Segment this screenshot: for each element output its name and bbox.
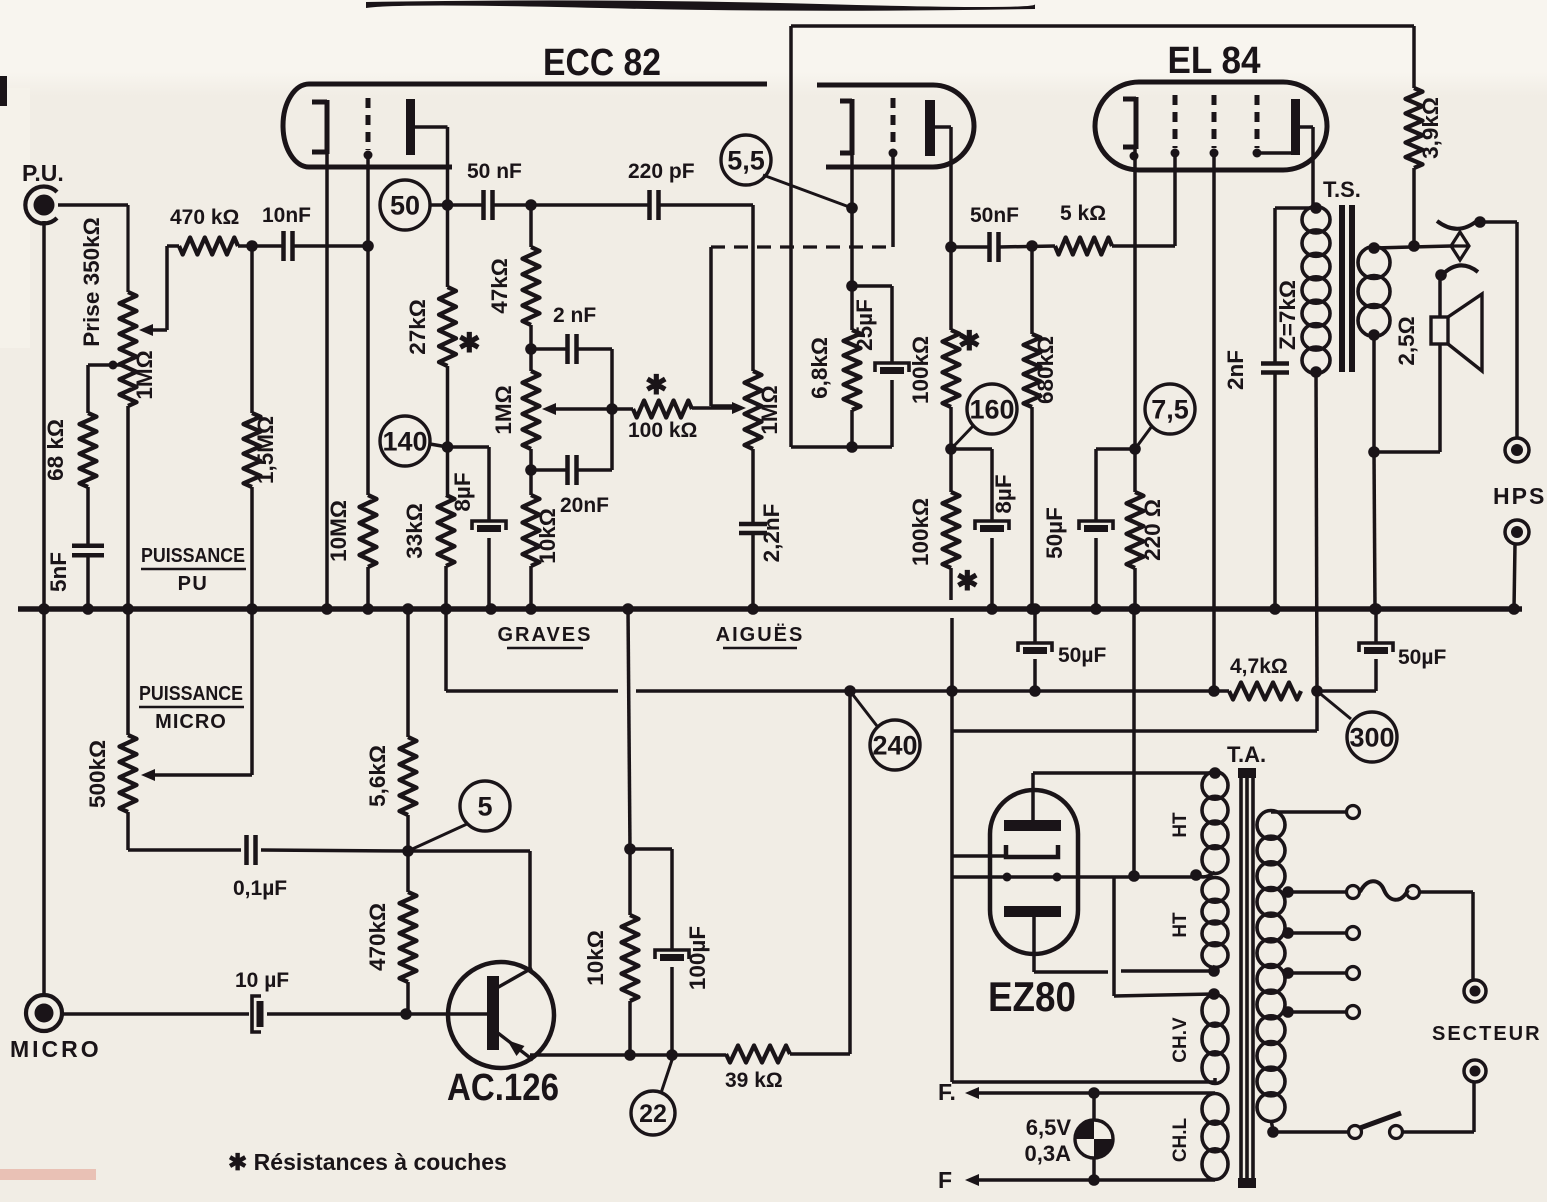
node dot bus at 8µF — [485, 603, 497, 615]
resistor 100kΩ tone — [612, 401, 735, 418]
label 100 kΩ — [628, 419, 697, 442]
ground bus wire — [18, 606, 1522, 612]
svg-text:100µF: 100µF — [685, 926, 710, 990]
svg-text:CH.V: CH.V — [1170, 1017, 1191, 1063]
grid1 EL84 — [1171, 95, 1180, 158]
svg-text:F: F — [938, 1167, 952, 1193]
wire 0,1µF to node 5 — [261, 850, 408, 851]
wire secondary bottom to bus — [1374, 335, 1375, 609]
wire feedback to cathode2 — [791, 26, 892, 447]
HPS terminal upper — [1505, 438, 1529, 462]
resistor 6,8kΩ — [844, 286, 861, 447]
capacitor 50nF — [484, 190, 493, 220]
node dot 2nF junction — [525, 343, 537, 355]
wire anode2 to 50nF node — [935, 127, 951, 330]
test point circle 5,5 — [721, 135, 852, 208]
node dot anode2 node — [945, 241, 957, 253]
label 50 nF — [467, 160, 522, 183]
label 5,6kΩ — [365, 745, 390, 807]
label 100µF — [685, 926, 710, 990]
label F upper — [938, 1079, 956, 1105]
label 50nF second — [970, 204, 1019, 227]
wire 2nF to tap node — [577, 349, 612, 470]
capacitor 8µF second — [975, 521, 1009, 530]
svg-text:22: 22 — [639, 1100, 667, 1128]
label 68kΩ — [43, 419, 68, 481]
label HT lower — [1170, 912, 1191, 938]
resistor 47kΩ — [523, 247, 540, 325]
svg-text:8µF: 8µF — [450, 472, 475, 511]
svg-text:MICRO: MICRO — [10, 1036, 102, 1062]
svg-text:100kΩ: 100kΩ — [908, 498, 933, 566]
potentiometer 1M (PUISSANCE PU) — [120, 292, 137, 406]
wire graves pot to 10k — [529, 449, 533, 495]
svg-text:EL 84: EL 84 — [1168, 40, 1261, 82]
tube ECC82 envelope (triode 2) — [817, 85, 974, 167]
svg-text:100kΩ: 100kΩ — [908, 336, 933, 404]
label 680kΩ — [1033, 336, 1058, 404]
wire 5,6k to node5 — [406, 815, 410, 851]
svg-text:68 kΩ: 68 kΩ — [43, 419, 68, 481]
node dot bus at 33k — [440, 603, 452, 615]
HPS terminal lower — [1505, 520, 1529, 544]
transformer TA CHL winding — [1202, 1094, 1228, 1180]
node dot emitter at 10k — [624, 1049, 636, 1061]
wire 8µF second to bus — [990, 538, 994, 609]
svg-text:1,5MΩ: 1,5MΩ — [253, 416, 278, 484]
node dot bus at P.U. — [38, 603, 50, 615]
cathode ECC82b — [840, 99, 852, 155]
anode ECC82b — [925, 100, 935, 156]
svg-text:100 kΩ: 100 kΩ — [628, 419, 697, 442]
wire 47k top — [529, 205, 533, 247]
wire 100µF branch — [630, 849, 672, 950]
capacitor 100µF — [655, 950, 689, 959]
node dot bus at 1,5M — [246, 603, 258, 615]
capacitor 50nF second — [990, 232, 999, 262]
svg-text:5: 5 — [477, 792, 492, 822]
label 8µF — [450, 472, 475, 511]
svg-text:50µF: 50µF — [1398, 646, 1446, 669]
wire cathode2 down — [850, 155, 854, 286]
wire TS top to 2nF — [1275, 206, 1316, 210]
resistor 1,5MΩ — [244, 246, 261, 609]
node dot bus at secondary — [1369, 603, 1381, 615]
capacitor 10nF — [284, 231, 293, 261]
svg-text:T.A.: T.A. — [1227, 742, 1266, 767]
node dot TS primary top — [1310, 202, 1322, 214]
label 50µF filter 240 — [1058, 644, 1106, 667]
svg-text:2nF: 2nF — [1223, 350, 1248, 390]
svg-text:CH.L: CH.L — [1170, 1117, 1191, 1162]
node dot 20nF junction — [525, 464, 537, 476]
resistor 10MΩ — [360, 495, 377, 567]
wire 160 node to 8µF — [951, 449, 992, 521]
svg-text:SECTEUR: SECTEUR — [1432, 1023, 1542, 1045]
red smudge bottom left — [0, 1169, 96, 1180]
capacitor 2,2nF — [739, 524, 767, 533]
label SECTEUR — [1432, 1023, 1542, 1045]
wire cathode1 to bus — [325, 154, 329, 609]
tube EL84 envelope — [1095, 82, 1327, 170]
svg-text:7,5: 7,5 — [1151, 395, 1189, 425]
label 5nF — [46, 552, 71, 592]
svg-text:ECC 82: ECC 82 — [543, 42, 661, 84]
label PUISSANCE MICRO — [139, 683, 244, 733]
test point circle 240 — [850, 691, 920, 770]
svg-text:✱ Résistances à couches: ✱ Résistances à couches — [228, 1149, 507, 1175]
node dot 47k top — [525, 199, 537, 211]
label 100kΩ lower — [908, 498, 933, 566]
wire emitter with arrow — [494, 1030, 533, 1060]
svg-text:5,6kΩ: 5,6kΩ — [365, 745, 390, 807]
label 0,1µF — [233, 877, 287, 900]
svg-text:10kΩ: 10kΩ — [535, 508, 560, 564]
resistor 4,7kΩ — [1229, 683, 1301, 700]
label 2nF EL84 — [1223, 350, 1248, 390]
wire 3,9k to jack node — [1412, 168, 1416, 246]
label F lower — [938, 1167, 952, 1193]
test point circle 140 — [380, 416, 448, 466]
node dot 7,5 node — [1129, 443, 1141, 455]
node dot emitter at 100µF — [666, 1049, 678, 1061]
anode ECC82a — [406, 99, 415, 155]
svg-text:0,3A: 0,3A — [1025, 1141, 1072, 1166]
label 100kΩ upper — [908, 336, 933, 404]
wire anode2 to 50nF2 — [951, 245, 989, 249]
wire 8µF to bus — [487, 538, 491, 609]
svg-text:140: 140 — [382, 427, 427, 457]
resistor 680kΩ — [1024, 246, 1041, 609]
svg-text:5nF: 5nF — [46, 552, 71, 592]
wire switch to secteur — [1403, 1083, 1474, 1132]
240V rail — [636, 689, 1229, 693]
wire 27k to 140 node — [446, 366, 450, 495]
wire F heater lower — [965, 1174, 1215, 1186]
capacitor 25µF — [875, 363, 909, 372]
label MICRO — [10, 1036, 102, 1062]
capacitor 5nF — [72, 546, 104, 556]
resistor 470kΩ — [179, 238, 238, 255]
resistor 5,6kΩ — [400, 737, 417, 815]
node dot bus at 5,6k — [402, 603, 414, 615]
label 2,2nF — [759, 504, 784, 563]
label 3,9kΩ — [1418, 97, 1443, 159]
label 6,8kΩ — [807, 337, 832, 399]
transformer TS secondary winding — [1358, 247, 1390, 337]
label 1MΩ aigues — [757, 385, 782, 434]
fuse — [1360, 881, 1420, 900]
svg-text:PUISSANCE: PUISSANCE — [141, 545, 245, 567]
black streak scan artifact top edge — [366, 0, 1035, 10]
asterisk 100k tone — [645, 370, 668, 400]
svg-text:AIGUËS: AIGUËS — [716, 623, 805, 646]
wire emitter line — [530, 1053, 726, 1057]
wire 50nF2 to 680k node — [999, 246, 1055, 247]
wire 470k to 10nF junction — [238, 244, 283, 248]
potentiometer 1MΩ GRAVES — [523, 371, 540, 449]
label EZ80 — [988, 973, 1076, 1020]
wire aigues wiper arrow — [732, 402, 746, 414]
wire node50 to 50nF — [448, 203, 484, 207]
wire CHV bottom — [952, 1078, 1215, 1082]
node dot 680k top — [1026, 240, 1038, 252]
wire speaker bottom — [1373, 344, 1440, 452]
asterisk 100k lower — [956, 566, 979, 596]
label 470 kΩ — [170, 206, 239, 229]
test point circle 300 — [1317, 691, 1397, 762]
wire prise tap — [88, 361, 124, 414]
svg-text:160: 160 — [969, 395, 1014, 425]
jack break contact lower arc — [1435, 265, 1478, 280]
wire mains tap 3 — [1282, 967, 1359, 980]
wire graves wiper — [542, 403, 612, 415]
anode1 EZ80 — [1004, 820, 1061, 831]
node dot rail at 50µF — [1029, 685, 1041, 697]
svg-text:F.: F. — [938, 1079, 956, 1105]
tube EZ80 envelope — [990, 790, 1078, 954]
node dot 300 node — [1311, 685, 1323, 697]
capacitor 10µF — [252, 996, 261, 1032]
label 20nF — [560, 494, 609, 517]
svg-text:✱: ✱ — [956, 566, 979, 596]
transformer TA HT2 winding — [1202, 878, 1228, 977]
wire 470k feed with wiper arrow — [139, 246, 179, 336]
label T.S. — [1323, 177, 1361, 202]
wire aigues pot to 2,2nF — [751, 449, 755, 524]
node dot rail at 4,7k — [1208, 685, 1220, 697]
wire base — [406, 1012, 488, 1016]
label 10nF — [262, 204, 311, 227]
node dot bus at 2,2nF — [747, 603, 759, 615]
wire micro jack to 10µF — [60, 1012, 249, 1016]
node dot bus at stub — [440, 603, 452, 615]
wire 5nF to bus — [86, 555, 90, 609]
svg-text:50µF: 50µF — [1042, 507, 1067, 559]
label 25µF — [852, 299, 877, 351]
black mark left edge — [0, 76, 7, 106]
node dot bus at 680k — [1026, 603, 1038, 615]
label EL 84 — [1168, 40, 1261, 82]
wire mains top tap — [1271, 806, 1360, 819]
node dot bus at pot — [122, 603, 134, 615]
node dot anode1 node — [442, 199, 454, 211]
jack plug tip diamond — [1451, 232, 1469, 260]
svg-text:HT: HT — [1170, 912, 1191, 938]
lighter top band of scan — [0, 0, 1547, 348]
label 4,7kΩ — [1230, 655, 1288, 678]
asterisk 27k — [458, 328, 481, 358]
svg-text:GRAVES: GRAVES — [498, 624, 593, 646]
label 2,5Ω — [1394, 316, 1419, 365]
label HPS — [1493, 483, 1546, 509]
asterisk 100k upper — [958, 326, 981, 356]
resistor 100kΩ upper — [943, 330, 960, 407]
node dot bus at 220 — [1129, 603, 1141, 615]
svg-text:25µF: 25µF — [852, 299, 877, 351]
svg-text:1MΩ: 1MΩ — [132, 350, 157, 399]
svg-text:50 nF: 50 nF — [467, 160, 522, 183]
svg-text:HPS: HPS — [1493, 483, 1546, 509]
svg-text:AC.126: AC.126 — [447, 1067, 559, 1109]
wire grid2 down to 4,7k — [1212, 153, 1216, 691]
svg-text:50: 50 — [390, 191, 420, 221]
node dot bus at riser — [622, 603, 634, 615]
test point circle 160 — [951, 384, 1017, 449]
wire 50µF cathode to bus — [1094, 538, 1098, 609]
svg-text:✱: ✱ — [958, 326, 981, 356]
node dot bus at 2nF EL84 — [1269, 603, 1281, 615]
label 2 nF — [553, 304, 596, 327]
svg-text:2,5Ω: 2,5Ω — [1394, 316, 1419, 365]
node dot bus at centre tap — [1128, 603, 1140, 615]
node dot 470k/1,5M junction — [246, 240, 258, 252]
svg-text:39 kΩ: 39 kΩ — [725, 1069, 783, 1092]
svg-text:PUISSANCE: PUISSANCE — [139, 683, 243, 705]
svg-text:5,5: 5,5 — [727, 146, 765, 176]
svg-text:6,5V: 6,5V — [1026, 1115, 1072, 1140]
capacitor 220pF — [650, 190, 659, 220]
node dot grid1 junction — [362, 240, 374, 252]
node dot 5,5 junction — [846, 202, 858, 214]
node dot base node — [400, 1008, 412, 1020]
wire 20nF branch — [531, 468, 567, 472]
wire 25µF branch — [852, 286, 892, 363]
node dot bus at 68k chain — [82, 603, 94, 615]
node dot rail at 39k riser — [844, 685, 856, 697]
transformer TS primary winding — [1302, 207, 1330, 374]
svg-text:470kΩ: 470kΩ — [365, 903, 390, 971]
wire P.U. jack to volume pot — [58, 205, 128, 292]
grid3 EL84 — [1253, 95, 1262, 158]
P.U. jack — [25, 187, 57, 224]
wire mains tap 2 — [1282, 927, 1359, 940]
node dot EL84 envelope — [1130, 152, 1139, 161]
label resistances a couches — [228, 1149, 507, 1175]
wire ground stub left — [446, 609, 618, 691]
wire mains bottom — [1267, 1120, 1361, 1139]
node dot 6,8k top — [846, 280, 858, 292]
wire 68k to 5nF — [86, 487, 90, 546]
transformer TA HT1 winding — [1196, 767, 1228, 877]
wire fuse to secteur — [1420, 892, 1473, 979]
wire B+ link 300 to EZ80 — [952, 691, 1317, 1082]
label GRAVES — [498, 624, 593, 648]
mains switch lever — [1360, 1113, 1403, 1139]
transformer TA core — [1238, 768, 1256, 1188]
label 220 Ω — [1140, 499, 1165, 561]
MICRO jack — [26, 995, 62, 1031]
feedback rail top — [791, 24, 1414, 28]
wire below bus 10k/100µF riser — [628, 609, 630, 849]
wire jack to HPS — [1480, 222, 1517, 438]
svg-text:680kΩ: 680kΩ — [1033, 336, 1058, 404]
wire 5,6k chain — [406, 609, 410, 737]
svg-text:27kΩ: 27kΩ — [405, 299, 430, 355]
svg-text:5 kΩ: 5 kΩ — [1060, 202, 1106, 225]
label 220 pF — [628, 160, 695, 183]
wire 50nF to 47k node — [493, 203, 649, 207]
svg-text:2,2nF: 2,2nF — [759, 504, 784, 563]
wire 220pF to aigues pot — [659, 205, 753, 371]
label AC.126 — [447, 1067, 559, 1109]
svg-text:✱: ✱ — [645, 370, 668, 400]
wire F heater upper — [965, 1087, 1215, 1099]
node dot bus at 50µF 300 — [1370, 603, 1382, 615]
test point circle 50 — [380, 180, 448, 230]
label 470kΩ base — [365, 903, 390, 971]
wire pot bottom to bus — [126, 406, 130, 609]
svg-text:10nF: 10nF — [262, 204, 311, 227]
wire mains tap 1 — [1282, 886, 1359, 899]
wire 20nF to tap node — [577, 468, 612, 472]
wire 7,5 to 50µF — [1096, 449, 1135, 521]
wire micro jack up to bus — [42, 609, 46, 997]
svg-text:2 nF: 2 nF — [553, 304, 596, 327]
node dot jack node — [1408, 240, 1420, 252]
test point circle 5 — [408, 781, 510, 851]
anode2 EZ80 — [1004, 906, 1061, 917]
svg-text:50nF: 50nF — [970, 204, 1019, 227]
wire 100µF to emitter line — [670, 967, 674, 1055]
label 1,5MΩ — [253, 416, 278, 484]
capacitor 0,1µF — [247, 835, 256, 865]
jack break contact upper arc — [1437, 216, 1486, 229]
node dot tap node — [606, 403, 618, 415]
grid ECC82a — [364, 98, 373, 160]
wire TS primary bottom down — [1316, 372, 1317, 691]
svg-text:0,1µF: 0,1µF — [233, 877, 287, 900]
svg-text:1MΩ: 1MΩ — [491, 385, 516, 434]
node dot bus at 50µF — [1090, 603, 1102, 615]
resistor 220Ω — [1127, 449, 1144, 609]
node dot TS secondary bottom — [1368, 329, 1380, 341]
resistor 10kΩ — [523, 495, 540, 566]
capacitor 20nF — [568, 455, 577, 485]
label ECC 82 — [543, 42, 661, 84]
test point circle 22 — [631, 1057, 675, 1135]
svg-text:PU: PU — [178, 573, 209, 595]
label CH.V — [1170, 1017, 1191, 1063]
resistor 33kΩ — [438, 495, 455, 566]
svg-text:300: 300 — [1349, 723, 1394, 753]
label AIGUES — [716, 623, 805, 648]
label 33kΩ — [402, 503, 427, 559]
label 10 µF — [235, 969, 289, 992]
node dot TS secondary top — [1368, 242, 1380, 254]
capacitor 2nF — [568, 334, 577, 364]
tube ECC82 envelope (triode 1) — [283, 84, 767, 167]
wire EL84 anode to TS — [1300, 127, 1313, 208]
svg-text:220 Ω: 220 Ω — [1140, 499, 1165, 561]
wire 100k lower below bus gap — [951, 568, 952, 691]
anode EL84 — [1291, 99, 1300, 155]
wire 140 node to 8µF — [448, 447, 490, 521]
svg-text:500kΩ: 500kΩ — [85, 740, 110, 808]
svg-text:HT: HT — [1170, 812, 1191, 838]
loudspeaker — [1431, 294, 1482, 371]
label HT upper — [1170, 812, 1191, 838]
grid ECC82b — [889, 98, 898, 158]
node dot bus at cathode1 — [321, 603, 333, 615]
transformer TA CHV winding — [1202, 988, 1228, 1083]
wire 2,2nF to bus — [751, 533, 755, 609]
svg-text:6,8kΩ: 6,8kΩ — [807, 337, 832, 399]
wire 5k to EL84 g1 — [1112, 154, 1175, 246]
wire secondary top row — [1374, 246, 1451, 248]
svg-text:10MΩ: 10MΩ — [326, 500, 351, 562]
wire 10nF to grid junction — [293, 244, 368, 248]
